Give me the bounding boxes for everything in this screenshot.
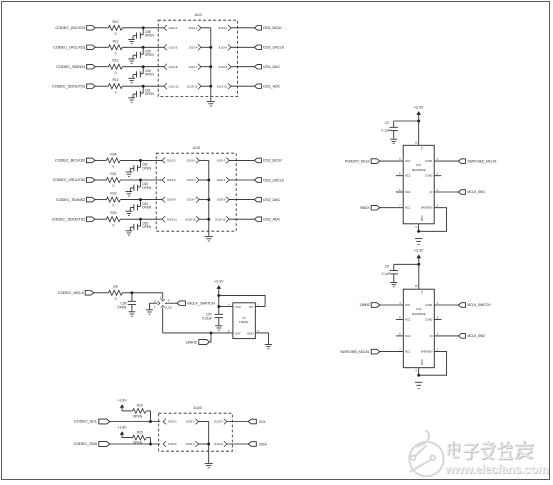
svg-text:JU13-11: JU13-11 xyxy=(168,84,179,88)
svg-text:OPEN: OPEN xyxy=(145,73,155,77)
svg-text:I2S2_ADC: I2S2_ADC xyxy=(263,218,280,222)
svg-text:I2S1_DAC: I2S1_DAC xyxy=(263,65,280,69)
svg-text:CODEC_BCLKS1: CODEC_BCLKS1 xyxy=(55,25,86,30)
svg-text:MCLK_SWITCH: MCLK_SWITCH xyxy=(187,301,215,306)
svg-text:NC1: NC1 xyxy=(405,350,411,354)
svg-text:0: 0 xyxy=(115,90,117,94)
svg-text:R12: R12 xyxy=(112,59,118,63)
svg-text:OUT: OUT xyxy=(235,332,241,336)
svg-text:JU19-2: JU19-2 xyxy=(167,159,176,163)
svg-text:JU19-5: JU19-5 xyxy=(167,178,176,182)
svg-text:V+: V+ xyxy=(420,147,423,151)
svg-text:0: 0 xyxy=(115,32,117,36)
svg-text:JU19-3: JU19-3 xyxy=(216,159,225,163)
svg-text:SCL: SCL xyxy=(259,420,266,424)
svg-text:JU19-4: JU19-4 xyxy=(187,178,196,182)
svg-text:JU19-7: JU19-7 xyxy=(187,198,196,202)
svg-text:JU20-6: JU20-6 xyxy=(214,442,223,446)
svg-text:OPEN: OPEN xyxy=(142,166,152,170)
svg-text:R11: R11 xyxy=(113,39,119,43)
svg-text:+3.3V: +3.3V xyxy=(214,279,224,283)
svg-text:JU13-2: JU13-2 xyxy=(168,26,177,30)
svg-text:OPEN: OPEN xyxy=(145,92,155,96)
svg-text:OPEN: OPEN xyxy=(117,305,127,309)
svg-text:IN: IN xyxy=(430,190,433,194)
svg-text:NO1: NO1 xyxy=(405,303,411,307)
svg-text:MCLK_SWITCH: MCLK_SWITCH xyxy=(467,303,491,307)
svg-text:C3: C3 xyxy=(385,121,389,125)
svg-text:www.elecfans.com: www.elecfans.com xyxy=(444,462,549,476)
svg-text:0: 0 xyxy=(112,165,114,169)
svg-text:OPEN: OPEN xyxy=(142,206,152,210)
svg-text:SWITCHED_MCLK1: SWITCHED_MCLK1 xyxy=(340,350,369,354)
svg-text:NO1: NO1 xyxy=(405,159,411,163)
svg-text:0: 0 xyxy=(115,71,117,75)
svg-text:CODEC_LRCLKS2: CODEC_LRCLKS2 xyxy=(53,177,86,182)
svg-text:JU13-4: JU13-4 xyxy=(188,45,197,49)
svg-text:R9: R9 xyxy=(113,285,117,289)
svg-text:JU13-10: JU13-10 xyxy=(187,84,198,88)
svg-text:VCC: VCC xyxy=(235,305,241,309)
svg-text:I2S2_DAC: I2S2_DAC xyxy=(263,198,280,202)
svg-text:OPEN: OPEN xyxy=(133,415,143,419)
svg-text:OPEN: OPEN xyxy=(145,34,155,38)
svg-text:NC2: NC2 xyxy=(405,174,411,178)
svg-text:JU20-5: JU20-5 xyxy=(168,442,177,446)
svg-text:GND: GND xyxy=(247,332,253,336)
svg-text:GND: GND xyxy=(420,359,423,365)
svg-text:IN: IN xyxy=(430,334,433,338)
svg-text:COM1: COM1 xyxy=(425,159,433,163)
svg-text:JU20-3: JU20-3 xyxy=(214,420,223,424)
svg-text:I2S2_LRCLK: I2S2_LRCLK xyxy=(263,178,284,182)
svg-text:CODEC_SDOUTS2: CODEC_SDOUTS2 xyxy=(52,216,87,221)
svg-text:CODEC_SCL: CODEC_SCL xyxy=(74,419,98,424)
svg-text:SHDN/EN: SHDN/EN xyxy=(421,206,433,210)
svg-text:0: 0 xyxy=(115,297,117,301)
svg-text:MCLK_SW1: MCLK_SW1 xyxy=(467,190,485,194)
svg-text:JU20: JU20 xyxy=(193,406,201,410)
svg-text:NC1: NC1 xyxy=(405,206,411,210)
svg-text:MAX4906E: MAX4906E xyxy=(412,168,426,172)
svg-text:JU13-8: JU13-8 xyxy=(168,65,177,69)
svg-text:JU19-9: JU19-9 xyxy=(216,198,225,202)
svg-text:0.1uF: 0.1uF xyxy=(382,272,390,276)
svg-text:JU13-7: JU13-7 xyxy=(188,65,197,69)
svg-text:JU19-10: JU19-10 xyxy=(185,217,196,221)
svg-text:JU13-6: JU13-6 xyxy=(218,45,227,49)
svg-text:0: 0 xyxy=(112,184,114,188)
svg-text:NO2: NO2 xyxy=(405,334,411,338)
svg-text:I2S2_BCLK: I2S2_BCLK xyxy=(263,159,282,163)
svg-text:OPEN: OPEN xyxy=(142,225,152,229)
svg-text:RMCK: RMCK xyxy=(360,206,370,210)
svg-text:+1.8V: +1.8V xyxy=(118,398,128,402)
svg-text:JU20-1: JU20-1 xyxy=(186,420,195,424)
svg-text:CODEC_SDINS1: CODEC_SDINS1 xyxy=(56,64,86,69)
svg-text:SWITCHED_MCLK1: SWITCHED_MCLK1 xyxy=(467,159,496,163)
svg-text:+3.3V: +3.3V xyxy=(414,249,424,253)
svg-text:JU13-1: JU13-1 xyxy=(188,26,197,30)
svg-text:R31: R31 xyxy=(110,172,116,176)
svg-text:SDA: SDA xyxy=(259,442,267,446)
svg-text:+1.8V: +1.8V xyxy=(118,426,128,430)
svg-text:JU19-12: JU19-12 xyxy=(215,217,226,221)
svg-text:JU19: JU19 xyxy=(192,146,200,150)
svg-text:JU13: JU13 xyxy=(194,13,202,17)
svg-text:13MHZ: 13MHZ xyxy=(185,340,198,344)
svg-text:R33: R33 xyxy=(110,211,116,215)
svg-text:CODEC_SDINS2: CODEC_SDINS2 xyxy=(56,197,86,202)
svg-text:JU13-9: JU13-9 xyxy=(218,65,227,69)
svg-text:R32: R32 xyxy=(110,192,116,196)
svg-text:COM2: COM2 xyxy=(425,318,433,322)
svg-text:I2S1_BCLK: I2S1_BCLK xyxy=(263,26,282,30)
svg-text:MCLK_SW2: MCLK_SW2 xyxy=(467,334,485,338)
svg-text:OPEN: OPEN xyxy=(145,53,155,57)
svg-text:0: 0 xyxy=(115,51,117,55)
svg-text:JU12: JU12 xyxy=(165,306,172,310)
svg-text:R15: R15 xyxy=(137,430,143,434)
svg-text:U14: U14 xyxy=(416,307,422,311)
svg-text:OPEN: OPEN xyxy=(133,441,143,445)
svg-text:ON: ON xyxy=(249,305,253,309)
svg-text:JU13-3: JU13-3 xyxy=(218,26,227,30)
svg-text:R10: R10 xyxy=(112,20,118,24)
svg-text:SHDN/EN: SHDN/EN xyxy=(421,350,433,354)
svg-text:PCM2707_MCLK: PCM2707_MCLK xyxy=(345,159,370,163)
svg-text:V+: V+ xyxy=(420,291,423,295)
svg-text:0: 0 xyxy=(112,223,114,227)
svg-text:0.01uF: 0.01uF xyxy=(202,316,212,320)
svg-text:NC2: NC2 xyxy=(405,318,411,322)
svg-text:CODEC_LRCLKS1: CODEC_LRCLKS1 xyxy=(53,45,86,50)
svg-text:NO2: NO2 xyxy=(405,190,411,194)
svg-text:R13: R13 xyxy=(112,78,118,82)
svg-text:13MHz: 13MHz xyxy=(239,320,249,324)
svg-text:JU19-6: JU19-6 xyxy=(216,178,225,182)
svg-text:JU13-5: JU13-5 xyxy=(168,45,177,49)
svg-text:COM1: COM1 xyxy=(425,303,433,307)
svg-text:JU20-4: JU20-4 xyxy=(186,442,195,446)
svg-text:+3.3V: +3.3V xyxy=(414,105,424,109)
svg-text:CODEC_BCLKS2: CODEC_BCLKS2 xyxy=(55,158,86,163)
svg-text:R34: R34 xyxy=(110,152,116,156)
svg-text:JU13-12: JU13-12 xyxy=(217,84,228,88)
svg-text:13MHZ: 13MHZ xyxy=(359,303,369,307)
svg-text:GND: GND xyxy=(420,216,423,222)
svg-text:U17: U17 xyxy=(416,163,422,167)
svg-text:CODEC_MCLK: CODEC_MCLK xyxy=(58,290,85,295)
svg-text:JU19-1: JU19-1 xyxy=(187,159,196,163)
svg-text:I2S1_ADC: I2S1_ADC xyxy=(263,85,280,89)
svg-text:JU19-8: JU19-8 xyxy=(167,198,176,202)
svg-text:CODEC_SDA: CODEC_SDA xyxy=(73,441,97,446)
svg-text:COM2: COM2 xyxy=(425,174,433,178)
svg-text:MAX4906E: MAX4906E xyxy=(412,312,426,316)
svg-text:0.1uF: 0.1uF xyxy=(382,129,390,133)
svg-text:C9: C9 xyxy=(385,265,389,269)
svg-text:JU19-11: JU19-11 xyxy=(167,217,178,221)
svg-text:CODEC_SDOUTS1: CODEC_SDOUTS1 xyxy=(52,83,87,88)
svg-text:OPEN: OPEN xyxy=(142,186,152,190)
svg-text:R16: R16 xyxy=(137,404,143,408)
svg-text:0: 0 xyxy=(112,204,114,208)
svg-text:I2S1_LRCLK: I2S1_LRCLK xyxy=(263,46,284,50)
svg-text:JU20-2: JU20-2 xyxy=(168,420,177,424)
